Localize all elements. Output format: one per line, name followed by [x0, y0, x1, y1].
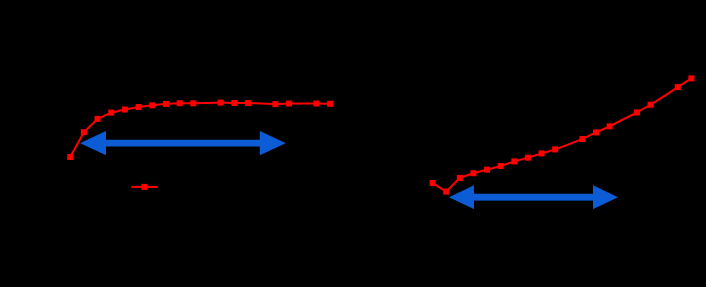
- left panel curve (red line): [70, 103, 330, 157]
- legend sample: red line with square marker: [131, 184, 157, 190]
- right panel blue double-headed arrow: [449, 185, 618, 209]
- right panel curve (red line): [433, 78, 692, 191]
- left panel blue double-headed arrow: [80, 131, 286, 155]
- left panel curve markers (red squares): [67, 100, 333, 160]
- right panel curve markers (red squares): [430, 75, 695, 194]
